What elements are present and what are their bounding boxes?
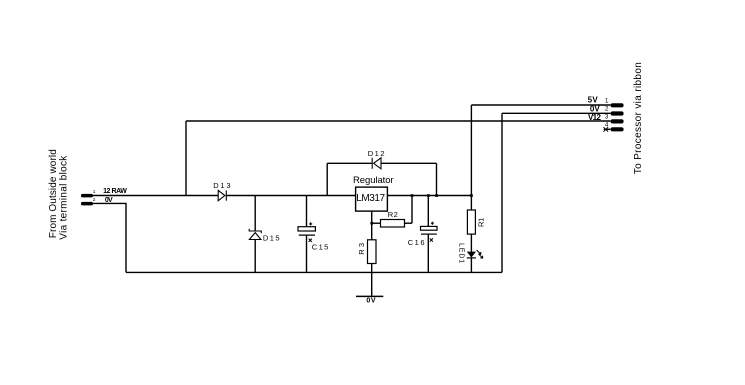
- connector J2 pin1: [611, 103, 624, 107]
- connector J2 pin2: [611, 111, 624, 115]
- svg-text:12 RAW: 12 RAW: [103, 188, 127, 195]
- ground 0V: [356, 295, 383, 297]
- svg-text:Via terminal block: Via terminal block: [58, 155, 69, 240]
- wire D12 loop right horizontal: [381, 162, 437, 164]
- resistor R1: [467, 210, 475, 234]
- wire 0V from left connector: [93, 203, 126, 272]
- wire 12RAW rail from connector to D13: [93, 195, 218, 197]
- wire LED1 cathode to rail: [470, 258, 472, 273]
- pin 4 no-connect stub: [604, 128, 611, 130]
- wire C15 branch top: [306, 196, 308, 227]
- svg-text:D15: D15: [263, 233, 280, 242]
- node D12 right: [435, 194, 438, 197]
- wire R2 riser to output rail: [411, 196, 413, 224]
- junction dots: [370, 194, 472, 224]
- connector J2 pin4: [611, 127, 624, 131]
- no-connect X on pin 4: [604, 127, 609, 131]
- wire D15 branch top: [254, 196, 256, 232]
- wire regulator ADJ pin down: [371, 211, 373, 240]
- resistor R2: [381, 220, 405, 228]
- wire D12 loop left horizontal: [327, 162, 372, 164]
- svg-text:0V: 0V: [105, 197, 113, 204]
- svg-text:LM317: LM317: [356, 193, 385, 204]
- connector J2 pin3: [611, 119, 624, 123]
- wire D12 bypass loop left riser: [326, 163, 328, 195]
- wire V12 horizontal to processor connector: [186, 120, 611, 122]
- diode D12: [372, 158, 381, 169]
- svg-text:5V: 5V: [588, 95, 599, 104]
- svg-text:Regulator: Regulator: [353, 175, 394, 186]
- wire C15 branch bottom: [306, 235, 308, 272]
- wire input rail D13 to regulator: [226, 195, 355, 197]
- wire R1 to LED1: [470, 234, 472, 252]
- svg-text:D13: D13: [213, 181, 230, 190]
- svg-text:D12: D12: [368, 149, 385, 158]
- wire 0V top horizontal to processor connector: [502, 112, 611, 114]
- regulator U1 LM317 box: [356, 187, 388, 211]
- svg-text:C15: C15: [312, 243, 329, 252]
- svg-text:R1: R1: [477, 218, 486, 227]
- wire C16 branch top: [427, 196, 429, 227]
- node R2 riser top: [411, 194, 414, 197]
- wire C16 branch bottom: [427, 234, 429, 272]
- svg-text:0V: 0V: [366, 297, 375, 304]
- wire 0V right riser: [501, 113, 503, 272]
- connector J1 pin 0V: [81, 202, 93, 206]
- C15 polarity mark: [309, 222, 312, 225]
- wire R2 left lead: [372, 222, 381, 224]
- C16 x mark: [430, 238, 433, 241]
- wire V12 riser: [185, 121, 187, 196]
- wire 5V horizontal to processor connector: [471, 104, 610, 106]
- node C16 top: [427, 194, 430, 197]
- wire R1 top lead: [470, 196, 472, 211]
- C15 x mark: [309, 239, 312, 242]
- wire output rail regulator to 5V corner: [387, 195, 471, 197]
- node ADJ R2: [370, 222, 373, 225]
- capacitor C15: [298, 227, 315, 235]
- capacitor C16: [421, 226, 438, 234]
- svg-text:V12: V12: [588, 113, 601, 122]
- wire R2 right lead: [405, 222, 413, 224]
- wire R3 bottom to rail: [371, 264, 373, 273]
- svg-text:LED1: LED1: [457, 243, 464, 263]
- LED1: [467, 250, 483, 258]
- svg-text:R2: R2: [388, 210, 398, 219]
- svg-text:To Processor via ribbon: To Processor via ribbon: [633, 62, 644, 174]
- wire D15 branch bottom: [254, 240, 256, 273]
- wire 5V riser: [470, 105, 472, 196]
- connector J1 pin 12RAW: [81, 194, 93, 198]
- diode D13: [218, 190, 226, 200]
- svg-text:From Outside world: From Outside world: [48, 149, 59, 238]
- wire bottom 0V rail: [126, 271, 502, 273]
- svg-text:1: 1: [93, 189, 96, 195]
- svg-text:C16: C16: [408, 238, 425, 247]
- zener diode D15: [249, 229, 261, 240]
- resistor R3: [368, 240, 377, 264]
- node 5V corner R1: [470, 194, 473, 197]
- svg-text:2: 2: [93, 197, 96, 203]
- wire D12 loop right riser: [436, 163, 438, 195]
- wire ground stem: [371, 272, 373, 296]
- C16 polarity mark: [431, 222, 434, 225]
